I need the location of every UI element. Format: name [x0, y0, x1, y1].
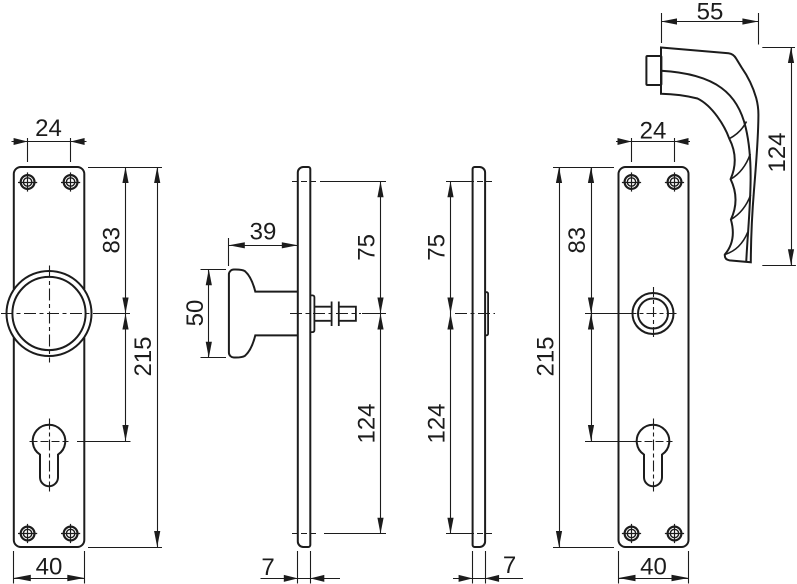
svg-text:75: 75 [424, 234, 451, 261]
svg-text:40: 40 [36, 554, 63, 581]
svg-text:124: 124 [424, 403, 451, 443]
svg-text:124: 124 [764, 132, 791, 172]
svg-text:83: 83 [99, 227, 126, 254]
svg-text:7: 7 [261, 554, 274, 581]
svg-text:83: 83 [564, 227, 591, 254]
svg-text:7: 7 [503, 552, 516, 579]
svg-text:40: 40 [640, 554, 667, 581]
svg-text:24: 24 [640, 117, 667, 144]
svg-text:50: 50 [182, 300, 209, 327]
svg-text:215: 215 [533, 336, 560, 376]
svg-text:75: 75 [354, 234, 381, 261]
svg-text:24: 24 [35, 115, 62, 142]
svg-text:124: 124 [354, 403, 381, 443]
svg-text:215: 215 [130, 336, 157, 376]
svg-text:39: 39 [250, 219, 277, 246]
svg-text:55: 55 [697, 0, 724, 26]
